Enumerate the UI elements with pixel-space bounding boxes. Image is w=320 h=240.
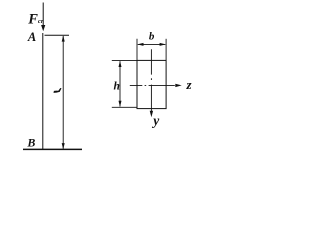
label l (rotated)	[54, 88, 62, 93]
svg-text:A: A	[27, 30, 36, 44]
dimension line h	[119, 61, 122, 107]
centerline axis y	[150, 49, 153, 117]
svg-text:z: z	[186, 77, 193, 92]
force arrow Fcr	[41, 3, 45, 32]
svg-text:F: F	[27, 12, 38, 28]
centerline axis z	[130, 84, 182, 87]
column AB	[42, 33, 44, 150]
svg-text:B: B	[26, 136, 35, 150]
dimension line l	[62, 35, 65, 149]
dimension line b	[137, 43, 166, 46]
extension line top	[45, 34, 70, 36]
extension lines b	[137, 39, 166, 60]
base line	[23, 148, 82, 150]
label Fcr	[27, 12, 44, 28]
svg-text:h: h	[114, 80, 120, 92]
extension lines h	[112, 61, 137, 108]
svg-text:cr: cr	[38, 18, 44, 25]
svg-text:y: y	[151, 113, 160, 128]
svg-text:b: b	[149, 31, 155, 43]
cross-section rectangle	[137, 60, 166, 108]
